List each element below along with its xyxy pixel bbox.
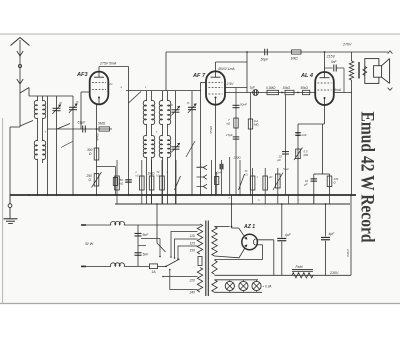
svg-text:250Ω: 250Ω [233, 156, 242, 160]
svg-text:1MΩ: 1MΩ [148, 172, 156, 176]
svg-text:17µF: 17µF [226, 133, 233, 137]
svg-text:10kΩ: 10kΩ [283, 86, 291, 90]
svg-text:µF: µF [304, 182, 308, 186]
svg-text:µF: µF [278, 158, 282, 162]
svg-text:4µF: 4µF [329, 232, 336, 236]
svg-text:50µF: 50µF [283, 167, 289, 171]
svg-text:4Ω: 4Ω [269, 175, 272, 179]
svg-text:150: 150 [190, 249, 196, 253]
svg-text:4µF: 4µF [285, 233, 292, 237]
svg-text:0.3MΩ: 0.3MΩ [266, 86, 276, 90]
svg-text:240: 240 [189, 291, 196, 295]
svg-text:AZ 1: AZ 1 [243, 224, 255, 230]
svg-text:10nF: 10nF [215, 171, 222, 175]
svg-text:125: 125 [190, 242, 196, 246]
svg-text:≈ 0.3A: ≈ 0.3A [263, 284, 272, 288]
svg-text:2nF: 2nF [301, 133, 307, 137]
svg-text:St W: St W [85, 242, 94, 246]
svg-text:1MΩ: 1MΩ [291, 57, 299, 61]
svg-text:kΩ: kΩ [136, 174, 139, 178]
svg-text:275V 5mA: 275V 5mA [99, 62, 117, 66]
svg-text:2x500: 2x500 [196, 165, 205, 169]
svg-text:5nF: 5nF [143, 253, 150, 257]
svg-text:215V: 215V [326, 55, 336, 59]
svg-text:AF 7: AF 7 [192, 73, 206, 79]
svg-text:50kΩ: 50kΩ [301, 86, 309, 90]
svg-text:kΩ: kΩ [157, 174, 160, 178]
svg-text:61µF: 61µF [78, 121, 87, 125]
svg-text:AF3: AF3 [76, 72, 88, 78]
svg-text:45V/2.1mA: 45V/2.1mA [218, 67, 235, 71]
svg-text:50µF: 50µF [261, 58, 270, 62]
svg-text:5MΩ: 5MΩ [98, 122, 106, 126]
svg-text:110: 110 [190, 234, 195, 238]
svg-text:MΩ: MΩ [254, 123, 259, 127]
svg-text:5nF: 5nF [143, 233, 150, 237]
svg-text:270V: 270V [342, 43, 352, 47]
svg-text:6mA: 6mA [335, 88, 341, 92]
svg-text:T.: T. [156, 130, 158, 134]
svg-text:220: 220 [189, 279, 196, 283]
svg-text:kΩ: kΩ [245, 173, 248, 177]
svg-text:Feld: Feld [296, 265, 304, 269]
svg-text:50mA: 50mA [96, 133, 100, 141]
svg-text:65mA: 65mA [209, 126, 213, 134]
svg-text:2.5V: 2.5V [226, 82, 235, 86]
svg-text:Emud 42 W Record: Emud 42 W Record [356, 112, 377, 243]
svg-text:230V: 230V [329, 271, 339, 275]
svg-text:AL 4: AL 4 [300, 73, 314, 79]
svg-text:50nF: 50nF [240, 103, 247, 107]
svg-text:hv: hv [110, 82, 114, 86]
